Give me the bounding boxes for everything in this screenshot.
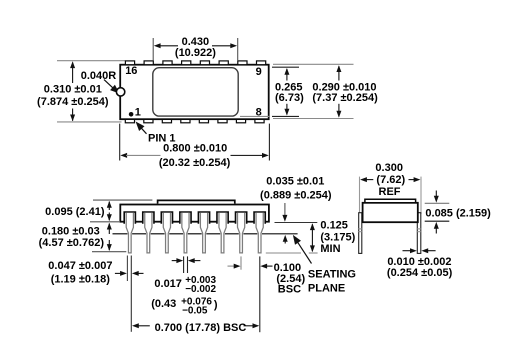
svg-text:(7.37 ±0.254): (7.37 ±0.254) <box>312 92 378 104</box>
svg-text:0.180 ±0.03: 0.180 ±0.03 <box>42 225 100 237</box>
svg-text:REF: REF <box>379 186 401 198</box>
dim 0.100 / 0.700 ext line lead8 <box>259 256 261 332</box>
dim 0.125 double arrow <box>310 223 315 230</box>
dim 0.085 upper ext line <box>425 202 450 204</box>
svg-text:16: 16 <box>125 65 137 77</box>
svg-text:−0.002: −0.002 <box>185 284 216 295</box>
dimension 0.310 +-0.01 vertical dimension line with arrows <box>72 63 74 84</box>
ext line body bottom right (gray long) <box>273 118 354 120</box>
dim 0.047 extension lines (lead 1 sides) <box>126 256 128 282</box>
dim 0.290 arrows <box>336 65 341 72</box>
dim 0.035 up arrow <box>284 241 286 244</box>
dim 0.010 arrows <box>403 250 412 252</box>
dim 0.265 arrows <box>284 68 289 75</box>
svg-text:(20.32 ±0.254): (20.32 ±0.254) <box>159 157 231 169</box>
svg-text:SEATING: SEATING <box>308 268 356 280</box>
svg-text:(0.889 ±0.254): (0.889 ±0.254) <box>260 190 332 202</box>
side view: ext line body bottom right (0.035 upper) <box>275 222 318 224</box>
dim 0.085 lower ext line <box>425 220 450 222</box>
svg-text:(7.62): (7.62) <box>376 174 405 186</box>
dim 0.430 left tick <box>152 38 154 60</box>
svg-text:0.700 (17.78) BSC: 0.700 (17.78) BSC <box>155 322 247 334</box>
svg-text:0.300: 0.300 <box>375 162 403 174</box>
dim 0.035 down arrow <box>284 203 286 216</box>
side view: package body outline <box>120 205 269 222</box>
svg-text:): ) <box>214 299 218 311</box>
svg-text:0.125: 0.125 <box>320 219 348 231</box>
SEATING PLANE leader arrow <box>296 239 312 264</box>
end view: right tick for 0.300 <box>420 177 422 214</box>
top view: pins 1..8 (bottom row of 8 pins) <box>125 119 264 122</box>
dim 0.300 arrows <box>360 177 367 182</box>
svg-text:(7.874 ±0.254): (7.874 ±0.254) <box>37 96 109 108</box>
svg-text:0.040R: 0.040R <box>81 70 117 82</box>
dim 0.017 arrows <box>172 260 178 262</box>
side view: ext line lead tips right <box>266 252 301 254</box>
pin-1 index notch circle on left edge <box>116 88 124 96</box>
top view: pins 16..9 (top row of 8 pins) <box>125 61 265 65</box>
svg-text:1: 1 <box>135 107 141 119</box>
dim 0.180 arrows <box>107 223 112 230</box>
side view: lid profile <box>158 200 235 203</box>
svg-text:−0.05: −0.05 <box>182 306 208 317</box>
svg-text:(1.19 ±0.18): (1.19 ±0.18) <box>51 273 111 285</box>
svg-text:(0.254 ±0.05): (0.254 ±0.05) <box>387 267 453 279</box>
top view: package body outline <box>120 65 269 120</box>
side view: ext line body bottom left (0.095 lower / 0.180 upper) <box>90 221 119 223</box>
svg-text:0.095 (2.41): 0.095 (2.41) <box>45 206 105 218</box>
svg-text:BSC: BSC <box>278 284 301 296</box>
end view: left tick for 0.300 <box>359 177 361 214</box>
dim 0.700 dimension line and arrows <box>132 323 139 328</box>
svg-text:(6.73): (6.73) <box>275 92 304 104</box>
svg-text:0.047 ±0.007: 0.047 ±0.007 <box>48 260 112 272</box>
svg-text:PLANE: PLANE <box>308 283 345 295</box>
dim 0.800 right tick <box>268 124 270 161</box>
top view: extension line lower-left for 0.310 dim <box>57 121 122 123</box>
dim 0.430 right tick <box>237 38 239 60</box>
side view: leads 1..8 (gray outline) <box>126 213 263 253</box>
ext line lid bottom right (crosses body interior) <box>240 115 270 117</box>
seating plane dashed line across leads <box>113 233 298 235</box>
end view: right lead <box>417 213 421 254</box>
end view: left lead <box>359 213 362 254</box>
svg-text:9: 9 <box>256 66 262 78</box>
dim 0.047 arrows <box>115 272 121 274</box>
dim 0.100 arrows <box>228 265 235 267</box>
svg-text:0.035 ±0.01: 0.035 ±0.01 <box>266 175 324 187</box>
svg-text:(3.175): (3.175) <box>320 232 355 244</box>
dim 0.095 arrows <box>107 201 112 208</box>
svg-text:(0.43: (0.43 <box>151 298 176 310</box>
svg-text:0.310 ±0.01: 0.310 ±0.01 <box>44 84 102 96</box>
dim 0.800 dimension line and arrows <box>120 153 127 158</box>
side view: lead slots in body wall (8) <box>124 212 265 224</box>
svg-text:(4.57 ±0.762): (4.57 ±0.762) <box>39 237 105 249</box>
top view: extension line upper-left for 0.310 dim <box>57 60 125 62</box>
dim 0.100 ext line lead7 <box>240 256 242 269</box>
leader arrow from 0.040R to notch <box>104 80 115 90</box>
top view: lid (inner rounded rectangle) <box>153 68 238 116</box>
leader arrow from PIN 1 to bottom pin 1 <box>141 127 147 134</box>
end view: lid profile <box>365 199 416 202</box>
dim 0.800 left tick <box>119 124 121 161</box>
svg-text:0.085 (2.159): 0.085 (2.159) <box>425 208 491 220</box>
dim 0.017 extension lines (lead 4 sides) <box>183 256 185 273</box>
end view: package body <box>363 203 418 222</box>
side view: ext line lead tips left (0.180 lower) <box>92 251 126 253</box>
svg-text:(10.922): (10.922) <box>175 47 216 59</box>
dim 0.085 down arrow <box>435 191 437 197</box>
ext line lid top right (short) <box>272 66 299 68</box>
pin 1 index dot <box>129 112 134 117</box>
svg-text:PIN 1: PIN 1 <box>148 132 176 144</box>
svg-text:0.017: 0.017 <box>154 278 182 290</box>
svg-text:MIN: MIN <box>320 243 340 255</box>
end view: lead crimp marks <box>358 228 363 230</box>
dim 0.430 dimension line and arrows <box>154 43 161 48</box>
dim 0.085 up arrow <box>435 228 437 234</box>
side view: ext line lid top (0.095 upper) <box>93 199 152 201</box>
ext line body top right (gray long) <box>273 63 354 65</box>
